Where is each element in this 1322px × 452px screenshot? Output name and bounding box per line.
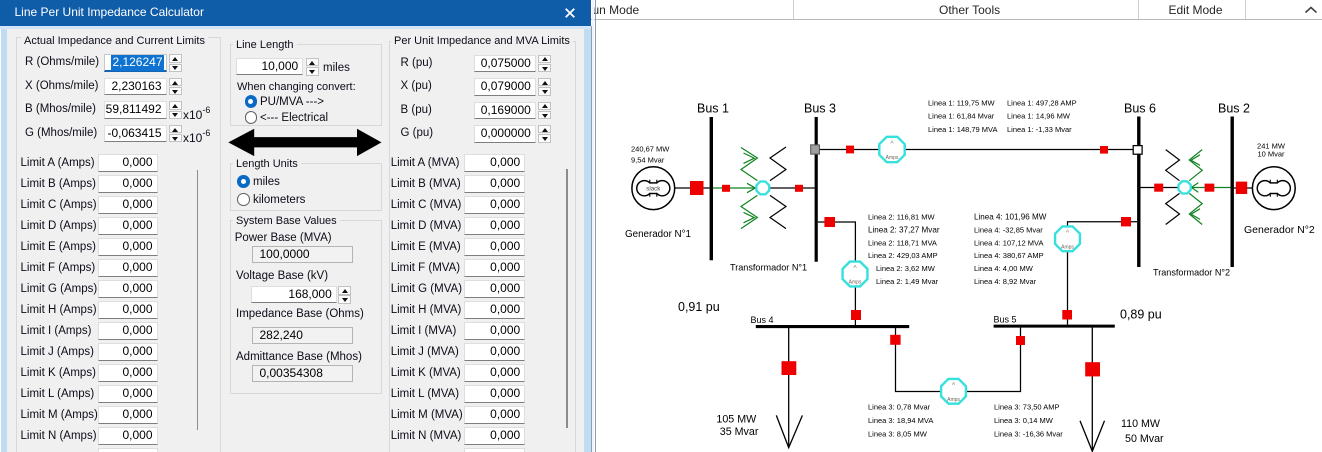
svg-text:Linea 4: 4,00 MW: Linea 4: 4,00 MW: [974, 264, 1034, 273]
svg-text:105 MW: 105 MW: [716, 413, 757, 425]
svg-text:Linea 2: 429,03 AMP: Linea 2: 429,03 AMP: [868, 251, 938, 260]
svg-text:10 Mvar: 10 Mvar: [1257, 150, 1285, 159]
svg-text:Bus 3: Bus 3: [804, 102, 836, 116]
svg-text:Amps: Amps: [1061, 244, 1074, 250]
svg-text:Linea 3: 0,14 MW: Linea 3: 0,14 MW: [994, 416, 1054, 425]
svg-text:9,54 Mvar: 9,54 Mvar: [631, 156, 665, 165]
svg-text:Amps: Amps: [947, 397, 960, 403]
svg-text:Transformador N°1: Transformador N°1: [730, 263, 807, 273]
svg-text:Linea 1: 61,84 Mvar: Linea 1: 61,84 Mvar: [928, 112, 995, 121]
svg-text:Bus 5: Bus 5: [994, 314, 1017, 324]
svg-text:Linea 3: 0,78 Mvar: Linea 3: 0,78 Mvar: [868, 403, 931, 412]
svg-text:Linea 1: 119,75 MW: Linea 1: 119,75 MW: [928, 98, 995, 107]
svg-text:110 MW: 110 MW: [1121, 418, 1161, 430]
svg-text:Linea 1: 148,79 MVA: Linea 1: 148,79 MVA: [928, 125, 998, 134]
svg-text:Bus 6: Bus 6: [1124, 102, 1156, 116]
svg-text:Linea 2: 3,62 MW: Linea 2: 3,62 MW: [876, 264, 936, 273]
svg-text:Bus 2: Bus 2: [1218, 102, 1250, 116]
svg-text:Linea 1: -1,33 Mvar: Linea 1: -1,33 Mvar: [1007, 125, 1072, 134]
svg-text:0,89 pu: 0,89 pu: [1120, 307, 1162, 321]
svg-text:Linea 3: 18,94 MVA: Linea 3: 18,94 MVA: [868, 416, 933, 425]
svg-text:Linea 2: 1,49 Mvar: Linea 2: 1,49 Mvar: [876, 277, 939, 286]
svg-text:Linea 2: 116,81 MW: Linea 2: 116,81 MW: [868, 213, 935, 222]
svg-text:Generador N°1: Generador N°1: [625, 229, 691, 240]
svg-text:Linea 4: 8,92 Mvar: Linea 4: 8,92 Mvar: [974, 277, 1037, 286]
svg-text:35 Mvar: 35 Mvar: [720, 426, 759, 438]
svg-text:Linea 1: 497,28 AMP: Linea 1: 497,28 AMP: [1007, 98, 1077, 107]
svg-text:slack: slack: [646, 185, 661, 192]
svg-text:Generador N°2: Generador N°2: [1244, 224, 1315, 236]
svg-text:Bus 1: Bus 1: [697, 102, 729, 116]
svg-text:Linea 3: 73,50 AMP: Linea 3: 73,50 AMP: [994, 403, 1059, 412]
svg-text:Linea 4: 101,96 MW: Linea 4: 101,96 MW: [974, 213, 1047, 222]
svg-text:Linea 4: 380,67 AMP: Linea 4: 380,67 AMP: [974, 251, 1044, 260]
svg-text:Linea 3: 8,05 MW: Linea 3: 8,05 MW: [868, 429, 928, 438]
svg-text:Linea 2: 118,71 MVA: Linea 2: 118,71 MVA: [868, 238, 937, 247]
svg-text:Linea 1: 14,96 MW: Linea 1: 14,96 MW: [1007, 112, 1071, 121]
svg-text:Linea 3: -16,36 Mvar: Linea 3: -16,36 Mvar: [994, 429, 1063, 438]
svg-text:Bus 4: Bus 4: [751, 315, 774, 325]
svg-text:0,91 pu: 0,91 pu: [678, 300, 720, 314]
svg-text:Amps: Amps: [849, 280, 862, 286]
svg-text:Linea 4: 107,12 MVA: Linea 4: 107,12 MVA: [974, 238, 1044, 247]
svg-text:Transformador N°2: Transformador N°2: [1153, 268, 1230, 278]
svg-text:50 Mvar: 50 Mvar: [1125, 433, 1164, 445]
svg-text:Amps: Amps: [886, 155, 899, 161]
svg-text:Linea 4: -32,85 Mvar: Linea 4: -32,85 Mvar: [974, 226, 1043, 235]
svg-text:240,67 MW: 240,67 MW: [631, 145, 670, 154]
svg-text:Linea 2: 37,27 Mvar: Linea 2: 37,27 Mvar: [868, 226, 940, 235]
